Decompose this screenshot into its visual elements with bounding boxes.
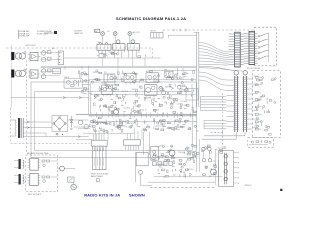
svg-text:PL 8V: PL 8V xyxy=(20,36,26,38)
vertical wire x102 xyxy=(102,58,104,67)
driver module M1 xyxy=(144,84,157,99)
lamp PL1 xyxy=(101,32,105,44)
lamp PL2 xyxy=(107,31,117,43)
svg-text:8: 8 xyxy=(238,178,239,180)
svg-text:R10 4.7k: R10 4.7k xyxy=(93,72,100,74)
svg-text:C12 47u: C12 47u xyxy=(179,90,185,92)
bus strip B1 xyxy=(226,76,238,132)
wire y94.8 xyxy=(90,94,197,96)
power amp module box xyxy=(151,147,159,161)
chassis dashed rail xyxy=(6,47,152,49)
inductor L1 xyxy=(93,122,106,123)
dashed wire top right xyxy=(163,29,254,31)
transformer T3 core xyxy=(19,159,21,169)
component legs through supply rail xyxy=(91,112,191,117)
svg-text:F1: F1 xyxy=(106,56,108,58)
svg-text:POWER SW AC: POWER SW AC xyxy=(37,30,53,33)
preamp cluster xyxy=(101,83,112,96)
dashed enclosure lower compartment xyxy=(248,137,274,147)
bias parts xyxy=(171,84,192,96)
wire y121.7 xyxy=(96,121,197,123)
transformer T1 xyxy=(15,52,26,60)
riser x145 xyxy=(144,58,146,67)
terminal labels xyxy=(247,68,261,70)
dashed divider x26 xyxy=(26,60,28,152)
svg-text:R10 4.7k: R10 4.7k xyxy=(140,110,147,112)
dashed divider x222.8 xyxy=(222,93,224,133)
connector J4 xyxy=(244,31,258,64)
svg-text:R22 560: R22 560 xyxy=(172,77,178,79)
svg-text:SW: SW xyxy=(98,42,101,44)
input stage parts ch1 xyxy=(40,48,62,62)
meter module xyxy=(104,72,115,85)
input stage parts ch2 xyxy=(40,68,60,78)
vertical x218.6 xyxy=(218,160,220,182)
svg-text:MUTE: MUTE xyxy=(64,77,70,79)
transformer TR1 core xyxy=(18,118,20,138)
transistor pair lower left xyxy=(78,120,90,129)
relay RY1 xyxy=(113,40,125,58)
dashed drop at x152 xyxy=(151,48,153,58)
svg-text:EQ2: EQ2 xyxy=(146,71,149,73)
ac source SG1 xyxy=(71,182,77,190)
pcb outline box B xyxy=(35,92,193,151)
vertical wire x88.6 xyxy=(89,66,97,114)
component cluster amp top band xyxy=(78,70,194,85)
svg-text:AC OUT: AC OUT xyxy=(133,31,141,34)
output pair transistors xyxy=(202,147,212,162)
legend fuse/lamp list xyxy=(18,30,29,39)
page number dot xyxy=(280,189,282,191)
rectifier bridge BR1 xyxy=(52,116,68,132)
fuse block under switch xyxy=(97,54,108,58)
signal rail pair xyxy=(41,66,197,68)
svg-text:C5 100u: C5 100u xyxy=(160,156,166,158)
dashed enclosure speaker switches xyxy=(254,27,276,66)
part under volume xyxy=(96,179,99,182)
output wires to terminals xyxy=(199,66,244,71)
svg-text:R8 10k: R8 10k xyxy=(108,111,114,113)
supply rail pair mid xyxy=(76,114,197,116)
svg-text:C5 100u: C5 100u xyxy=(153,79,159,81)
diode rail left xyxy=(11,96,88,98)
junction ticks on rail xyxy=(65,66,82,69)
wire y70 xyxy=(150,69,196,71)
bus vertical pair xyxy=(168,32,199,107)
svg-text:R10 4.7k: R10 4.7k xyxy=(121,91,128,93)
svg-text:D3: D3 xyxy=(183,126,185,128)
resistor row R30-R33 xyxy=(153,162,173,166)
transistor Q6 xyxy=(169,150,175,156)
connector XLR J1 xyxy=(11,52,16,60)
relay RY3 xyxy=(165,69,173,79)
svg-text:R22 560: R22 560 xyxy=(119,125,125,127)
svg-text:R8 10k: R8 10k xyxy=(159,120,165,122)
transistor Q4 xyxy=(162,91,166,95)
terminal strip TS1 xyxy=(216,148,239,186)
edge connector risers xyxy=(95,128,142,140)
svg-text:C5 100u: C5 100u xyxy=(126,126,132,128)
pcb outline box A xyxy=(31,82,197,158)
legend power note with wire xyxy=(37,30,57,36)
component cluster in right enclosure xyxy=(253,76,277,135)
supply output wires xyxy=(24,120,89,138)
svg-text:AC IN: AC IN xyxy=(151,30,157,33)
svg-text:R10 4.7k: R10 4.7k xyxy=(178,152,185,154)
svg-text:C12 47u: C12 47u xyxy=(187,169,193,171)
vertical wire x133 xyxy=(132,53,134,67)
svg-text:SP TERM: SP TERM xyxy=(218,148,226,150)
transformer TR1 windings xyxy=(11,118,24,138)
wire y176.8 xyxy=(154,176,222,178)
svg-text:R8 10k: R8 10k xyxy=(180,172,186,174)
power switch S1 xyxy=(97,42,111,57)
svg-text:FUSE 250V: FUSE 250V xyxy=(37,33,49,35)
smoothing caps xyxy=(56,133,64,136)
svg-text:SP OUT 8Ω 4Ω: SP OUT 8Ω 4Ω xyxy=(247,68,261,70)
component cluster lower mid xyxy=(151,144,226,163)
svg-text:8: 8 xyxy=(238,162,239,164)
svg-text:C5 100u: C5 100u xyxy=(153,109,159,111)
mic module parts xyxy=(42,160,57,182)
svg-text:C12 47u: C12 47u xyxy=(155,126,161,128)
note text top xyxy=(74,31,83,35)
vertical wire pair x199 xyxy=(197,139,200,172)
preamp module B xyxy=(146,71,159,82)
svg-text:SELECTOR VOLUME: SELECTOR VOLUME xyxy=(91,173,109,175)
protect module CL1 xyxy=(64,77,90,88)
dashed enclosure mic module xyxy=(26,155,58,192)
svg-text:R10 4.7k: R10 4.7k xyxy=(132,89,139,91)
svg-text:C5 100u: C5 100u xyxy=(180,101,186,103)
svg-text:D3: D3 xyxy=(93,79,95,81)
volume labels xyxy=(91,173,109,178)
wire y182.2 xyxy=(148,181,215,183)
wire y139.6 xyxy=(76,139,93,141)
ic U3 xyxy=(28,158,41,170)
component cluster amp right xyxy=(153,118,198,131)
svg-text:8: 8 xyxy=(238,173,239,175)
dashed corner bottom right xyxy=(211,132,223,147)
bus exits bottom xyxy=(202,132,245,139)
svg-text:PA16-12: PA16-12 xyxy=(245,184,252,187)
transformer T4 core xyxy=(19,174,21,185)
wire y133.2 xyxy=(83,132,134,134)
svg-text:RADIO KITS IN JA: RADIO KITS IN JA xyxy=(84,192,120,197)
svg-text:C12 47u: C12 47u xyxy=(177,103,183,105)
wires transformer to bridge xyxy=(24,121,52,137)
volume block VR1 xyxy=(93,146,107,169)
wire bundle to connector xyxy=(199,43,229,66)
mic module caption xyxy=(28,193,42,196)
bias network box xyxy=(186,88,198,100)
op-amp U2 xyxy=(28,70,40,78)
svg-text:8: 8 xyxy=(238,183,239,185)
transistor Q7 xyxy=(211,169,217,175)
interconnect box input xyxy=(58,51,63,65)
component cluster amp mid band xyxy=(82,84,142,97)
terminal TP1 xyxy=(234,71,238,76)
preamp module A xyxy=(124,73,136,84)
lower compartment parts xyxy=(249,140,271,145)
dashed enclosure right mid xyxy=(253,71,281,138)
vertical pair right of CN2 xyxy=(144,132,150,155)
svg-text:MIC1 MIC2 AUX: MIC1 MIC2 AUX xyxy=(28,193,42,196)
svg-text:C5 100u: C5 100u xyxy=(123,107,129,109)
transformer T4 windings xyxy=(14,175,24,183)
svg-text:C5 100u: C5 100u xyxy=(107,75,113,77)
svg-text:R10 4.7k: R10 4.7k xyxy=(153,81,160,83)
relay RY2 xyxy=(127,40,139,58)
svg-text:LAMP 8V: LAMP 8V xyxy=(74,32,83,35)
wire horizontal y57.6 xyxy=(64,57,161,59)
component cluster amp upper xyxy=(94,96,197,115)
transformer T3 windings xyxy=(14,160,24,168)
svg-text:C5 100u: C5 100u xyxy=(83,89,89,91)
component cluster amp left xyxy=(89,117,149,133)
svg-text:8: 8 xyxy=(238,152,239,154)
terminal cluster TB2 xyxy=(151,30,163,38)
svg-text:C12 47u: C12 47u xyxy=(101,53,107,55)
component cluster bottom xyxy=(156,163,216,178)
vertical wire x118 xyxy=(117,58,119,80)
lamp PL3 xyxy=(128,31,141,43)
power transistor Q8 xyxy=(113,109,118,117)
caption row tiny xyxy=(150,186,214,188)
wire y79.8 xyxy=(89,79,197,81)
phone jack block xyxy=(135,152,152,186)
component legs below rail xyxy=(97,120,185,125)
edge connector CN1 xyxy=(92,134,108,146)
transistor Q3 xyxy=(159,86,163,90)
left border wire xyxy=(10,45,12,108)
junction dots upper xyxy=(177,68,184,80)
svg-text:R10 4.7k: R10 4.7k xyxy=(187,151,194,153)
label AC100V xyxy=(95,29,100,33)
bus strip B2 xyxy=(242,76,252,132)
transistor Q5 xyxy=(57,166,75,171)
svg-text:2SC1815: 2SC1815 xyxy=(144,98,152,100)
svg-text:C5 100u: C5 100u xyxy=(173,129,179,131)
svg-text:SHOWN: SHOWN xyxy=(129,192,145,197)
edge connector CN2 xyxy=(124,134,141,151)
terminal TP2 xyxy=(243,71,247,76)
wire ladder to bus xyxy=(200,96,226,128)
chassis dashed bottom left xyxy=(11,108,90,143)
svg-text:C5 100u: C5 100u xyxy=(119,121,125,123)
svg-text:8: 8 xyxy=(238,168,239,170)
svg-text:8: 8 xyxy=(238,157,239,159)
op-amp U1 xyxy=(28,52,40,60)
ic U4 xyxy=(28,173,41,185)
svg-text:MIC AMP MODULE PA16: MIC AMP MODULE PA16 xyxy=(27,152,49,155)
component cluster right mid band xyxy=(159,84,193,97)
diode column D10 xyxy=(70,116,73,130)
pot VR2 xyxy=(68,177,74,182)
svg-text:INPUT MOD: INPUT MOD xyxy=(26,45,37,47)
svg-text:SCHEMATIC DIAGRAM PA16-1.2A: SCHEMATIC DIAGRAM PA16-1.2A xyxy=(116,16,186,21)
wire bundle to bus xyxy=(199,72,226,90)
connector J3 xyxy=(229,32,244,67)
svg-text:R22 560: R22 560 xyxy=(165,87,171,89)
svg-text:BASS TREBLE: BASS TREBLE xyxy=(91,175,104,178)
connector XLR J2 xyxy=(11,70,16,78)
transformer T2 xyxy=(15,69,26,77)
vertical wire x90.6 xyxy=(90,83,92,114)
tick marks on dashed wire xyxy=(174,29,186,32)
svg-text:R22 560: R22 560 xyxy=(159,164,165,166)
svg-text:C12 47u: C12 47u xyxy=(130,123,136,125)
component cluster under switch xyxy=(101,52,146,57)
svg-text:C12 47u: C12 47u xyxy=(106,107,112,109)
